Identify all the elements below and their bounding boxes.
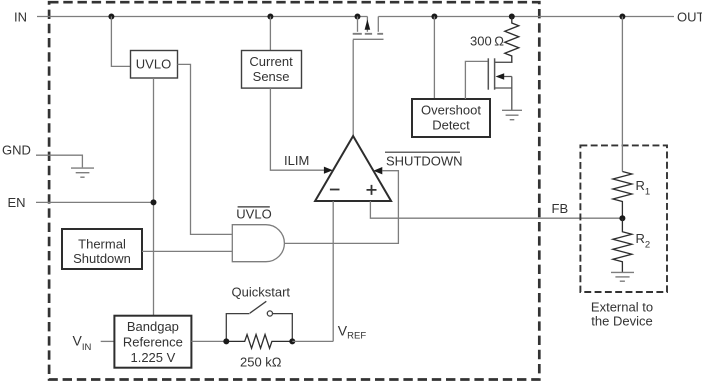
wire UVLO output to AND gate top input <box>178 64 233 234</box>
transistor overshoot NMOS <box>488 58 512 110</box>
svg-text:Quickstart: Quickstart <box>232 285 291 300</box>
wire IN to current sense <box>269 17 271 51</box>
node quickstart left <box>223 338 229 344</box>
node EN junction <box>151 199 157 205</box>
wire VIN lead <box>101 340 115 342</box>
svg-text:UVLO: UVLO <box>136 57 171 72</box>
overline SHUTDOWN <box>385 151 460 153</box>
resistor 300 ohm <box>495 17 519 63</box>
svg-text:UVLO: UVLO <box>236 206 271 221</box>
node IN/UVLO tap <box>108 14 114 20</box>
block thermal shutdown <box>62 229 142 269</box>
block UVLO <box>131 51 178 79</box>
node IN/current-sense tap <box>267 14 273 20</box>
transistor pass PMOS <box>353 17 384 40</box>
block overshoot detect <box>412 99 490 137</box>
block current sense <box>242 51 302 89</box>
wire error amp non-inverting input to FB <box>370 201 622 218</box>
svg-text:GND: GND <box>2 143 31 158</box>
wire thermal shutdown to AND gate bottom input <box>142 250 232 252</box>
ground NMOS source <box>502 110 522 119</box>
node OUT divider tap <box>619 14 625 20</box>
resistor R2 <box>613 218 632 272</box>
pass PMOS body arrow <box>365 19 371 29</box>
wire EN lead <box>36 201 154 203</box>
svg-text:Sense: Sense <box>253 69 290 84</box>
svg-text:FB: FB <box>552 201 569 216</box>
wire VREF node <box>292 340 333 342</box>
resistor R1 <box>613 172 632 219</box>
inner dashed external boundary <box>580 145 667 292</box>
op-amp error amplifier <box>315 136 391 201</box>
wire GND lead <box>36 155 82 167</box>
svg-text:Bandgap: Bandgap <box>127 319 179 334</box>
wire IN rail left <box>37 16 367 18</box>
wire overshoot detect to NMOS gate <box>465 61 487 99</box>
block bandgap reference <box>114 316 191 368</box>
svg-text:Reference: Reference <box>123 335 183 350</box>
svg-text:EN: EN <box>8 195 26 210</box>
svg-text:1.225 V: 1.225 V <box>130 350 175 365</box>
svg-text:Overshoot: Overshoot <box>421 102 481 117</box>
svg-text:VREF: VREF <box>338 323 367 342</box>
arrow SHUTDOWN into error amp <box>373 167 382 174</box>
ground GND pin <box>71 168 94 177</box>
svg-text:VIN: VIN <box>73 333 92 354</box>
wire AND output to shutdown input of error amp <box>284 171 398 244</box>
error amp plus sign <box>367 185 377 195</box>
wire pass FET gate to error amp output <box>352 40 354 136</box>
arrow ILIM into error amp <box>324 167 333 174</box>
svg-text:Current: Current <box>249 54 293 69</box>
switch quickstart <box>226 301 292 341</box>
node FB divider junction <box>619 215 625 221</box>
gate UVLO-bar AND <box>232 225 284 262</box>
error amp minus sign <box>330 189 340 191</box>
resistor 250k <box>226 335 292 349</box>
node quickstart right <box>289 338 295 344</box>
svg-text:SHUTDOWN: SHUTDOWN <box>386 154 463 169</box>
svg-text:IN: IN <box>14 10 27 25</box>
wire ILIM <box>270 88 324 170</box>
svg-text:Detect: Detect <box>432 117 470 132</box>
outer dashed device boundary <box>49 2 539 379</box>
svg-text:Shutdown: Shutdown <box>73 251 131 266</box>
svg-text:ILIM: ILIM <box>284 153 309 168</box>
svg-text:Thermal: Thermal <box>78 237 126 252</box>
NMOS body arrow <box>496 73 505 79</box>
wire IN rail right to OUT <box>378 16 674 18</box>
svg-text:the Device: the Device <box>591 314 652 329</box>
node overshoot-detect tap <box>431 14 437 20</box>
wire error amp inverting input to VREF <box>332 201 334 341</box>
wire EN vertical (UVLO to bandgap) <box>153 78 155 316</box>
svg-text:R1: R1 <box>636 178 651 198</box>
svg-text:External to: External to <box>591 300 653 315</box>
svg-text:OUT: OUT <box>677 10 702 25</box>
node pass FET source tap <box>355 14 361 20</box>
svg-text:R2: R2 <box>636 231 651 251</box>
node 300-ohm tap <box>509 14 515 20</box>
wire IN to UVLO <box>111 17 130 67</box>
svg-text:250 kΩ: 250 kΩ <box>240 355 282 370</box>
ground R2 <box>611 272 634 281</box>
overline UVLO-bar <box>238 206 270 208</box>
wire bandgap output <box>191 340 226 342</box>
wire IN to overshoot detect <box>433 17 435 100</box>
wire OUT to R1 <box>621 17 623 172</box>
svg-text:300 Ω: 300 Ω <box>470 34 504 49</box>
